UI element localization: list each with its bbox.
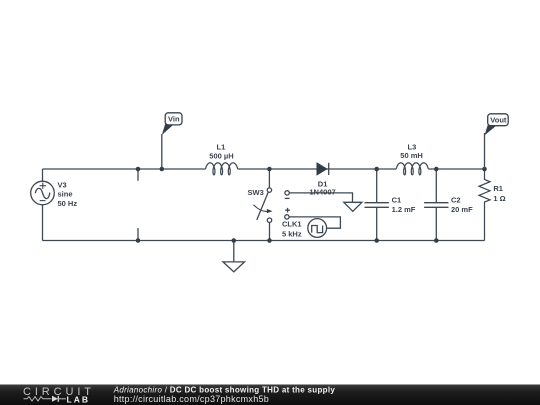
svg-text:50 mH: 50 mH	[400, 151, 423, 160]
inductor L3	[396, 143, 428, 175]
svg-text:500 µH: 500 µH	[209, 151, 233, 160]
svg-text:sine: sine	[58, 190, 73, 199]
svg-text:50 Hz: 50 Hz	[58, 199, 78, 208]
ground G1	[223, 238, 245, 272]
resistor R1	[479, 167, 506, 241]
clock source CLK1	[282, 219, 327, 239]
footer url text	[114, 394, 269, 404]
wire bottom rail	[43, 240, 485, 242]
svg-text:SW3: SW3	[248, 188, 264, 197]
logo CIRCUIT	[23, 386, 95, 398]
footer bar	[0, 385, 540, 405]
svg-text:LAB: LAB	[67, 395, 90, 405]
voltage source V3	[31, 180, 78, 208]
wire V3 top lead	[42, 169, 44, 181]
switch SW3 control terminals	[285, 191, 290, 219]
wire SW3 minus to ground	[289, 193, 352, 202]
node stub bottom	[136, 228, 141, 243]
inductor L1	[206, 143, 238, 175]
capacitor C2	[424, 167, 473, 243]
svg-text:L1: L1	[217, 143, 226, 152]
wire SW3 plus to CLK1	[289, 217, 340, 228]
footer title text	[113, 385, 336, 394]
wire Vin tap	[160, 134, 165, 171]
svg-text:R1: R1	[493, 184, 503, 193]
svg-text:Vin: Vin	[168, 115, 180, 124]
svg-text:CLK1: CLK1	[282, 220, 302, 229]
wire V3 bottom lead	[42, 205, 44, 241]
flag Vin	[162, 113, 182, 135]
flag Vout	[485, 114, 509, 136]
svg-text:1.2 mF: 1.2 mF	[392, 205, 416, 214]
switch SW3	[248, 167, 273, 243]
node stub top	[136, 167, 141, 181]
svg-text:20 mF: 20 mF	[451, 205, 473, 214]
svg-text:C1: C1	[392, 196, 402, 205]
svg-text:Vout: Vout	[490, 116, 507, 125]
svg-text:1N4007: 1N4007	[309, 188, 335, 197]
wire top rail	[43, 168, 485, 170]
logo squiggle resistor-diode	[24, 396, 67, 402]
svg-text:C2: C2	[451, 196, 461, 205]
wire Vout tap	[484, 133, 486, 169]
svg-text:V3: V3	[58, 180, 67, 189]
ground G2	[344, 202, 362, 211]
svg-text:5 kHz: 5 kHz	[282, 229, 302, 238]
logo LAB	[67, 395, 90, 405]
diode D1	[309, 163, 335, 197]
svg-text:1 Ω: 1 Ω	[493, 194, 505, 203]
svg-text:http://circuitlab.com/cp37phkc: http://circuitlab.com/cp37phkcmxh5b	[114, 394, 269, 404]
capacitor C1	[365, 167, 416, 243]
